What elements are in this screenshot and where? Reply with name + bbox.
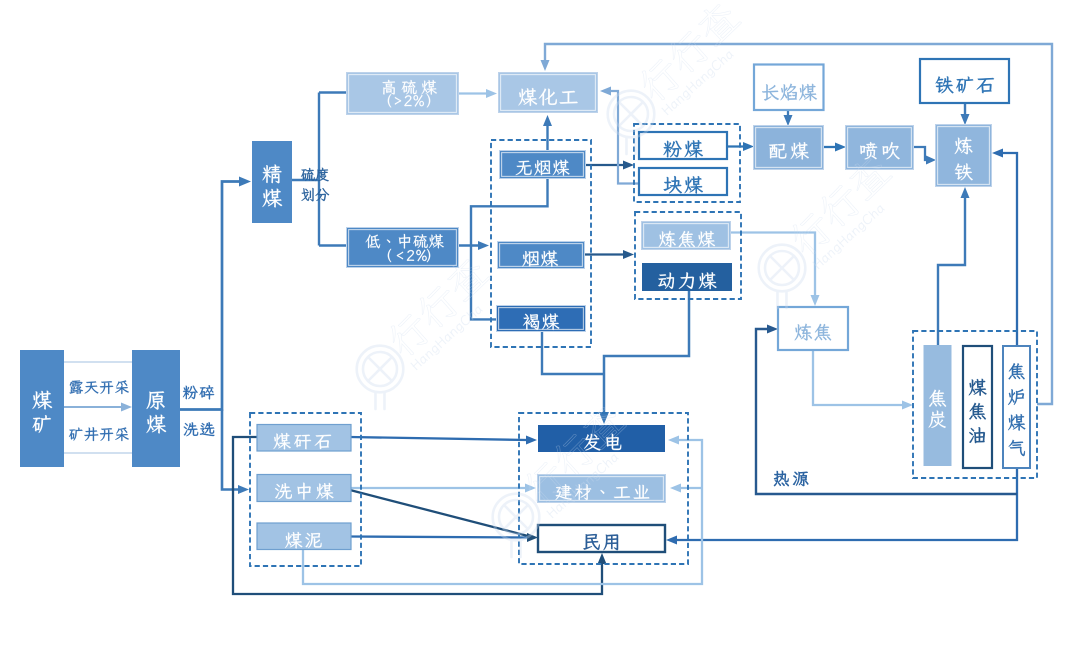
- wire: blending to injection arrow: [823, 146, 836, 148]
- node: pulverized coal 粉煤: [639, 132, 727, 159]
- label: shaft mining 矿井开采: [69, 428, 82, 441]
- node: coal slime 煤泥: [257, 523, 351, 550]
- wire: gangue around to civil use bottom arrow: [233, 437, 602, 594]
- label: heat source 热源: [774, 471, 789, 486]
- node: long flame coal 长焰煤: [754, 65, 824, 111]
- wire: coal mine to raw coal thin top: [64, 361, 132, 363]
- wire: lump coal to coal chemical: [608, 91, 640, 184]
- dashed group: pulverized/lump: [634, 124, 740, 202]
- node: refined coal 精煤: [252, 141, 292, 223]
- wire: gangue to power generation arrow: [350, 437, 527, 440]
- node: civil use 民用: [538, 525, 665, 552]
- node: low mid sulfur coal 低、中硫煤: [347, 228, 458, 267]
- node: coal gangue 煤矸石: [257, 425, 351, 452]
- wire: pulverized coal to blending arrow: [727, 145, 744, 147]
- wire: injection to iron making step arrow: [913, 147, 928, 160]
- node: raw coal 原煤: [132, 350, 180, 467]
- node: building material industry 建材、工业: [538, 475, 665, 502]
- node: coke 焦炭: [924, 345, 952, 466]
- label: crushing 粉碎: [183, 386, 198, 399]
- label: sulfur classification 硫度划分: [301, 168, 314, 181]
- node: lump coal 块煤: [639, 168, 727, 195]
- node: thermal coal 动力煤: [642, 263, 732, 291]
- label: washing 洗选: [184, 422, 198, 436]
- wire: long flame coal to blending arrow: [787, 109, 789, 117]
- wire: high sulfur coal to coal chemical arrow: [458, 92, 488, 94]
- wire: coal mine to raw coal arrow: [64, 406, 122, 408]
- wire: raw coal to refined coal / washing split: [180, 182, 241, 410]
- wire: coking to coke products arrow: [813, 350, 903, 405]
- wire: thermal coal and lignite to power generation: [604, 290, 689, 414]
- watermark logo 1: [608, 0, 743, 154]
- watermark logo 3: [357, 252, 492, 409]
- wire: low mid sulfur to bituminous arrow + branches: [458, 244, 479, 246]
- node: iron making 炼铁: [936, 125, 991, 186]
- watermark logo 4: [493, 400, 628, 557]
- node: coal blending 配煤: [754, 126, 823, 169]
- node: coal mine 煤矿: [20, 350, 64, 467]
- wire: slime bottom loop to power gen and building material right arrows: [303, 440, 702, 584]
- wire: coke oven gas frame loop to coal chemical top: [545, 44, 1052, 404]
- wire: coke oven gas down to civil use arrow: [676, 468, 1017, 540]
- wire: coking coal to coking arrow: [730, 233, 815, 298]
- wire: washed middling diagonal to civil use: [350, 490, 528, 536]
- wire: heat source line to coking arrow: [756, 329, 1017, 494]
- node: bituminous coal 烟煤: [498, 242, 584, 268]
- node: coal tar 煤焦油: [963, 346, 992, 468]
- node: coke oven gas 焦炉煤气: [1003, 346, 1030, 468]
- wire: anthracite to pulverized/lump group arrow: [585, 164, 624, 166]
- wire: slime to civil use arrow: [350, 537, 528, 538]
- wire: washed middling to building material arrow: [350, 487, 526, 489]
- dashed group: coking/thermal: [635, 212, 741, 299]
- wire: coke oven gas up to iron making arrow: [1002, 153, 1017, 346]
- wire: coal mine to raw coal thin bottom: [64, 452, 132, 454]
- node: coking coal 炼焦煤: [642, 222, 730, 249]
- node: iron ore 铁矿石: [920, 59, 1009, 103]
- wire: refined coal sulfur split: [292, 179, 319, 181]
- wire: iron ore to iron making arrow: [964, 104, 966, 115]
- dashed group: power/building/civil: [519, 413, 688, 564]
- node: power generation 发电: [538, 425, 665, 452]
- node: anthracite 无烟煤: [500, 151, 585, 178]
- node: injection 喷吹: [846, 126, 913, 169]
- node: coal chemical 煤化工: [499, 73, 597, 112]
- dashed group: coke products: [913, 331, 1037, 478]
- watermark logo 2: [759, 151, 894, 308]
- node: high sulfur coal 高硫煤: [347, 73, 458, 114]
- dashed group: gangue/middling/slime: [250, 413, 361, 566]
- node: lignite 褐煤: [497, 306, 585, 331]
- node: coking 炼焦: [778, 307, 848, 350]
- wire: bituminous to coking coal group arrow: [584, 253, 624, 255]
- wire: coke to iron making arrow: [938, 197, 965, 346]
- node: washed middling coal 洗中煤: [257, 475, 351, 502]
- dashed group: coal types: [491, 140, 591, 347]
- label: open pit mining 露天开采: [70, 381, 83, 394]
